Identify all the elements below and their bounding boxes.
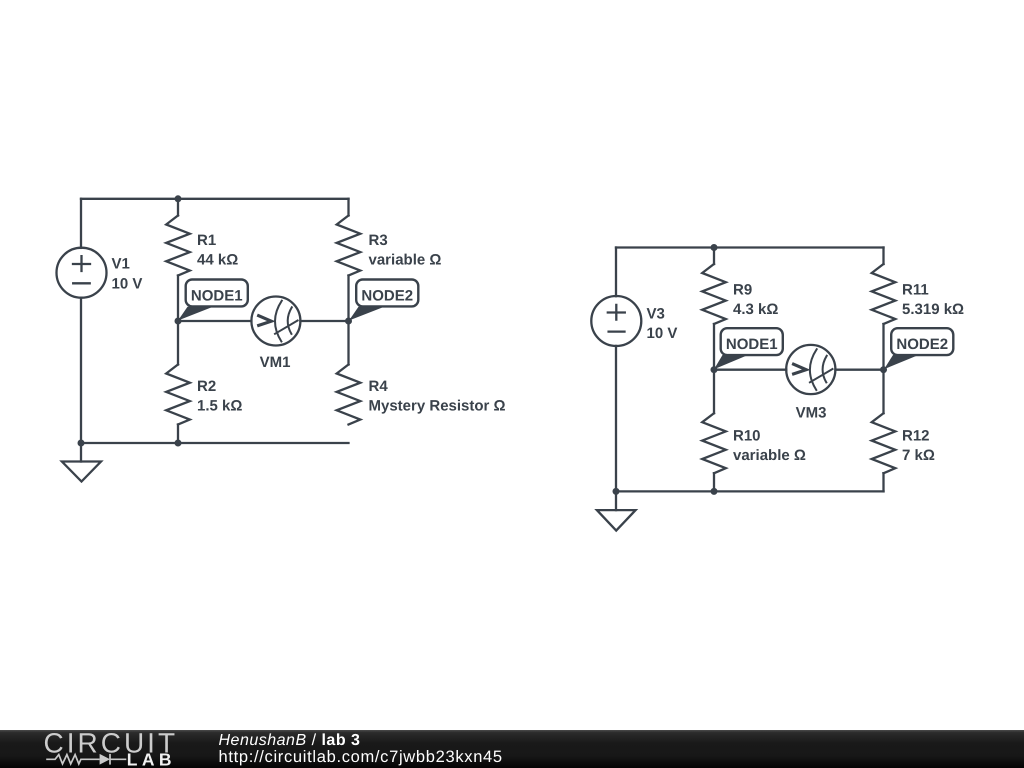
wire left rail upper (V1 top lead) [80,199,82,248]
node D junction dot [880,366,887,373]
resistor R10 [702,413,726,473]
node NODE1 flag right circuit [714,328,783,369]
svg-text:7 kΩ: 7 kΩ [902,447,935,464]
label VM3 [796,404,827,421]
label R9 value [733,281,778,318]
label R1 value [197,232,238,269]
resistor R1 [166,216,190,276]
resistor R9 [702,264,726,324]
junction bottom middle right circuit [711,488,718,495]
wire VM1 to node B [300,320,348,322]
svg-text:http://circuitlab.com/c7jwbb23: http://circuitlab.com/c7jwbb23kxn45 [219,748,503,766]
label R10 value [733,427,806,464]
label R12 value [902,427,935,464]
voltage source V3 [591,296,641,346]
svg-text:44 kΩ: 44 kΩ [197,252,238,269]
svg-text:VM3: VM3 [796,404,827,421]
wire R1 to node A [177,276,179,322]
svg-text:V1: V1 [112,256,130,273]
svg-text:R3: R3 [369,232,388,249]
voltmeter VM1 [251,297,300,346]
label V3 value [647,306,678,342]
svg-text:VM1: VM1 [260,354,291,371]
svg-text:Mystery Resistor Ω: Mystery Resistor Ω [369,398,506,415]
junction bottom left rail right circuit [613,488,620,495]
resistor R11 [872,264,896,324]
footer bar [0,730,1024,768]
node A junction dot [175,318,182,325]
wire node A to R2 [177,321,179,365]
resistor R2 [166,365,190,425]
wire node C to VM3 [714,369,786,371]
node B junction dot [345,318,352,325]
wire middle rail top lead right circuit [713,248,715,265]
label V1 value [112,256,143,293]
svg-text:4.3 kΩ: 4.3 kΩ [733,301,778,318]
node NODE1 flag left circuit [178,280,248,321]
svg-text:NODE1: NODE1 [726,336,778,353]
svg-text:R12: R12 [902,427,930,444]
label VM1 [260,354,291,371]
ground left [62,462,101,482]
CircuitLab logo schematic squiggle [46,754,126,765]
wire R11 to node D [882,324,884,370]
wire node B to R4 [347,321,349,365]
svg-text:10 V: 10 V [112,276,143,293]
svg-text:5.319 kΩ: 5.319 kΩ [902,301,964,318]
wire R10 bottom lead [713,473,715,491]
wire node C to R10 [713,370,715,414]
voltage source V1 [57,248,107,298]
svg-text:NODE2: NODE2 [361,288,413,305]
junction top middle left circuit [175,195,182,202]
label R3 value [369,232,442,269]
svg-text:R10: R10 [733,427,761,444]
resistor R12 [872,413,896,473]
svg-text:LAB: LAB [127,749,176,768]
wire R2 bottom lead [177,425,179,444]
junction bottom left rail [78,440,85,447]
svg-text:R9: R9 [733,281,752,298]
wire left rail lower right circuit (V3 bottom lead) [615,346,617,492]
wire R9 to node C [713,324,715,370]
voltmeter VM3 [786,345,835,394]
wire R12 bottom lead [882,473,884,491]
wire top left circuit [81,198,349,200]
wire top right circuit [616,246,884,248]
svg-text:R11: R11 [902,281,929,298]
svg-text:NODE1: NODE1 [191,288,243,305]
wire bottom left circuit [81,442,349,444]
wire VM3 to node D [835,369,883,371]
label R11 value [902,281,964,318]
label R2 value [197,378,242,415]
svg-text:NODE2: NODE2 [896,336,948,353]
junction bottom middle left circuit [175,440,182,447]
svg-text:variable Ω: variable Ω [733,447,806,464]
wire middle rail top lead [177,199,179,216]
wire right rail top lead right circuit [882,248,884,265]
resistor R3 [337,216,361,276]
wire ground lead left [80,443,82,462]
svg-text:R2: R2 [197,378,216,395]
svg-text:R1: R1 [197,232,216,249]
wire node D to R12 [882,370,884,414]
wire bottom right circuit [616,490,884,492]
label R4 value [369,378,506,415]
wire left rail lower (V1 bottom lead) [80,298,82,443]
wire ground lead right [615,491,617,510]
wire R3 to node B [347,276,349,322]
svg-text:HenushanB / lab 3: HenushanB / lab 3 [219,732,361,749]
wire right rail top lead [347,199,349,216]
svg-text:10 V: 10 V [647,325,678,342]
node C junction dot [711,366,718,373]
node NODE2 flag left circuit [349,280,418,321]
svg-text:variable Ω: variable Ω [369,252,442,269]
svg-text:1.5 kΩ: 1.5 kΩ [197,398,242,415]
wire left rail upper right circuit (V3 top lead) [615,248,617,297]
svg-text:R4: R4 [369,378,389,395]
node NODE2 flag right circuit [884,328,953,369]
ground right [597,510,636,530]
junction top middle right circuit [711,244,718,251]
resistor R4 [337,365,361,425]
wire node A to VM1 [178,320,251,322]
svg-text:V3: V3 [647,306,665,323]
